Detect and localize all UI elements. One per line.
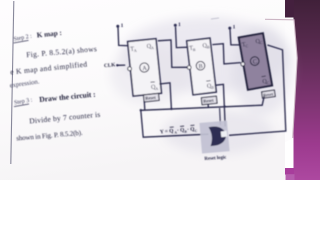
label Y equation	[160, 125, 198, 136]
junction dot QbarB bus	[224, 105, 226, 107]
wire +1 to TA	[118, 28, 130, 46]
wire bus down to Y line	[141, 110, 209, 137]
svg-text:· Q: · Q	[187, 126, 195, 133]
reset tab B	[201, 96, 217, 105]
junction dot QbarA bus	[170, 108, 172, 110]
wire QbarA down	[159, 83, 171, 109]
svg-text:1: 1	[121, 23, 124, 29]
wire CLK to A	[117, 64, 125, 66]
purple bottom-left step	[286, 174, 295, 180]
svg-text:Y = Q: Y = Q	[160, 128, 174, 135]
faint mark top center	[211, 18, 219, 19]
reset bus	[141, 96, 265, 110]
paper sheet	[0, 0, 285, 180]
underline step2	[14, 40, 29, 43]
slide background	[0, 0, 320, 180]
underline step3	[14, 104, 29, 107]
svg-text:B: B	[198, 63, 203, 70]
wire reset tab B to bus	[207, 104, 209, 108]
svg-text:· Q: · Q	[177, 127, 185, 134]
flip-flop C	[236, 33, 272, 90]
svg-text:1: 1	[178, 22, 181, 28]
purple side band	[294, 0, 320, 180]
node +1 B	[174, 22, 181, 28]
reset tab C	[262, 90, 276, 98]
wire +1 to TB	[176, 27, 190, 48]
svg-text:1: 1	[233, 25, 236, 31]
wire QbarB down to gate	[216, 84, 225, 126]
flip-flop B	[184, 38, 216, 95]
wire QA to clock B	[158, 40, 188, 67]
paper edge shadow top right	[265, 19, 297, 138]
node CLK	[104, 62, 119, 69]
page margin line	[11, 1, 14, 164]
wire stub gate input 2	[219, 108, 222, 125]
node +1 A	[116, 23, 123, 29]
purple bottom arm	[266, 168, 294, 175]
wire QB to clock C	[212, 44, 240, 64]
wire QC loop to gate	[229, 45, 286, 135]
wire +1 to TC	[230, 30, 241, 45]
junction dot A bus	[140, 109, 142, 111]
flip-flop A	[125, 39, 161, 97]
purple top notch	[285, 0, 294, 18]
svg-text:CLK: CLK	[104, 62, 116, 69]
node +1 C	[228, 25, 235, 31]
wire reset tab A to bus	[143, 101, 146, 110]
photo shading blotches	[110, 17, 292, 154]
reset logic shaded box	[199, 121, 229, 154]
gate reset logic	[209, 125, 229, 146]
reset tab A	[143, 93, 159, 102]
